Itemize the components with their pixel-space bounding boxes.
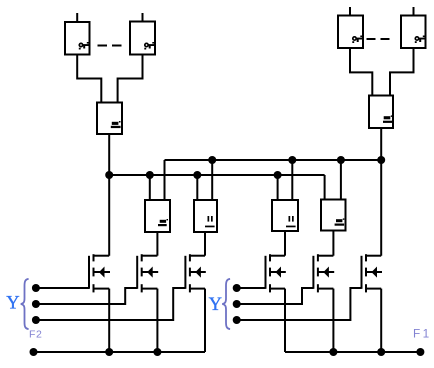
- svg-text:F2: F2: [29, 328, 42, 340]
- svg-text:F1: F1: [413, 327, 432, 341]
- svg-text:Y: Y: [6, 294, 19, 314]
- svg-text:Y: Y: [209, 295, 222, 315]
